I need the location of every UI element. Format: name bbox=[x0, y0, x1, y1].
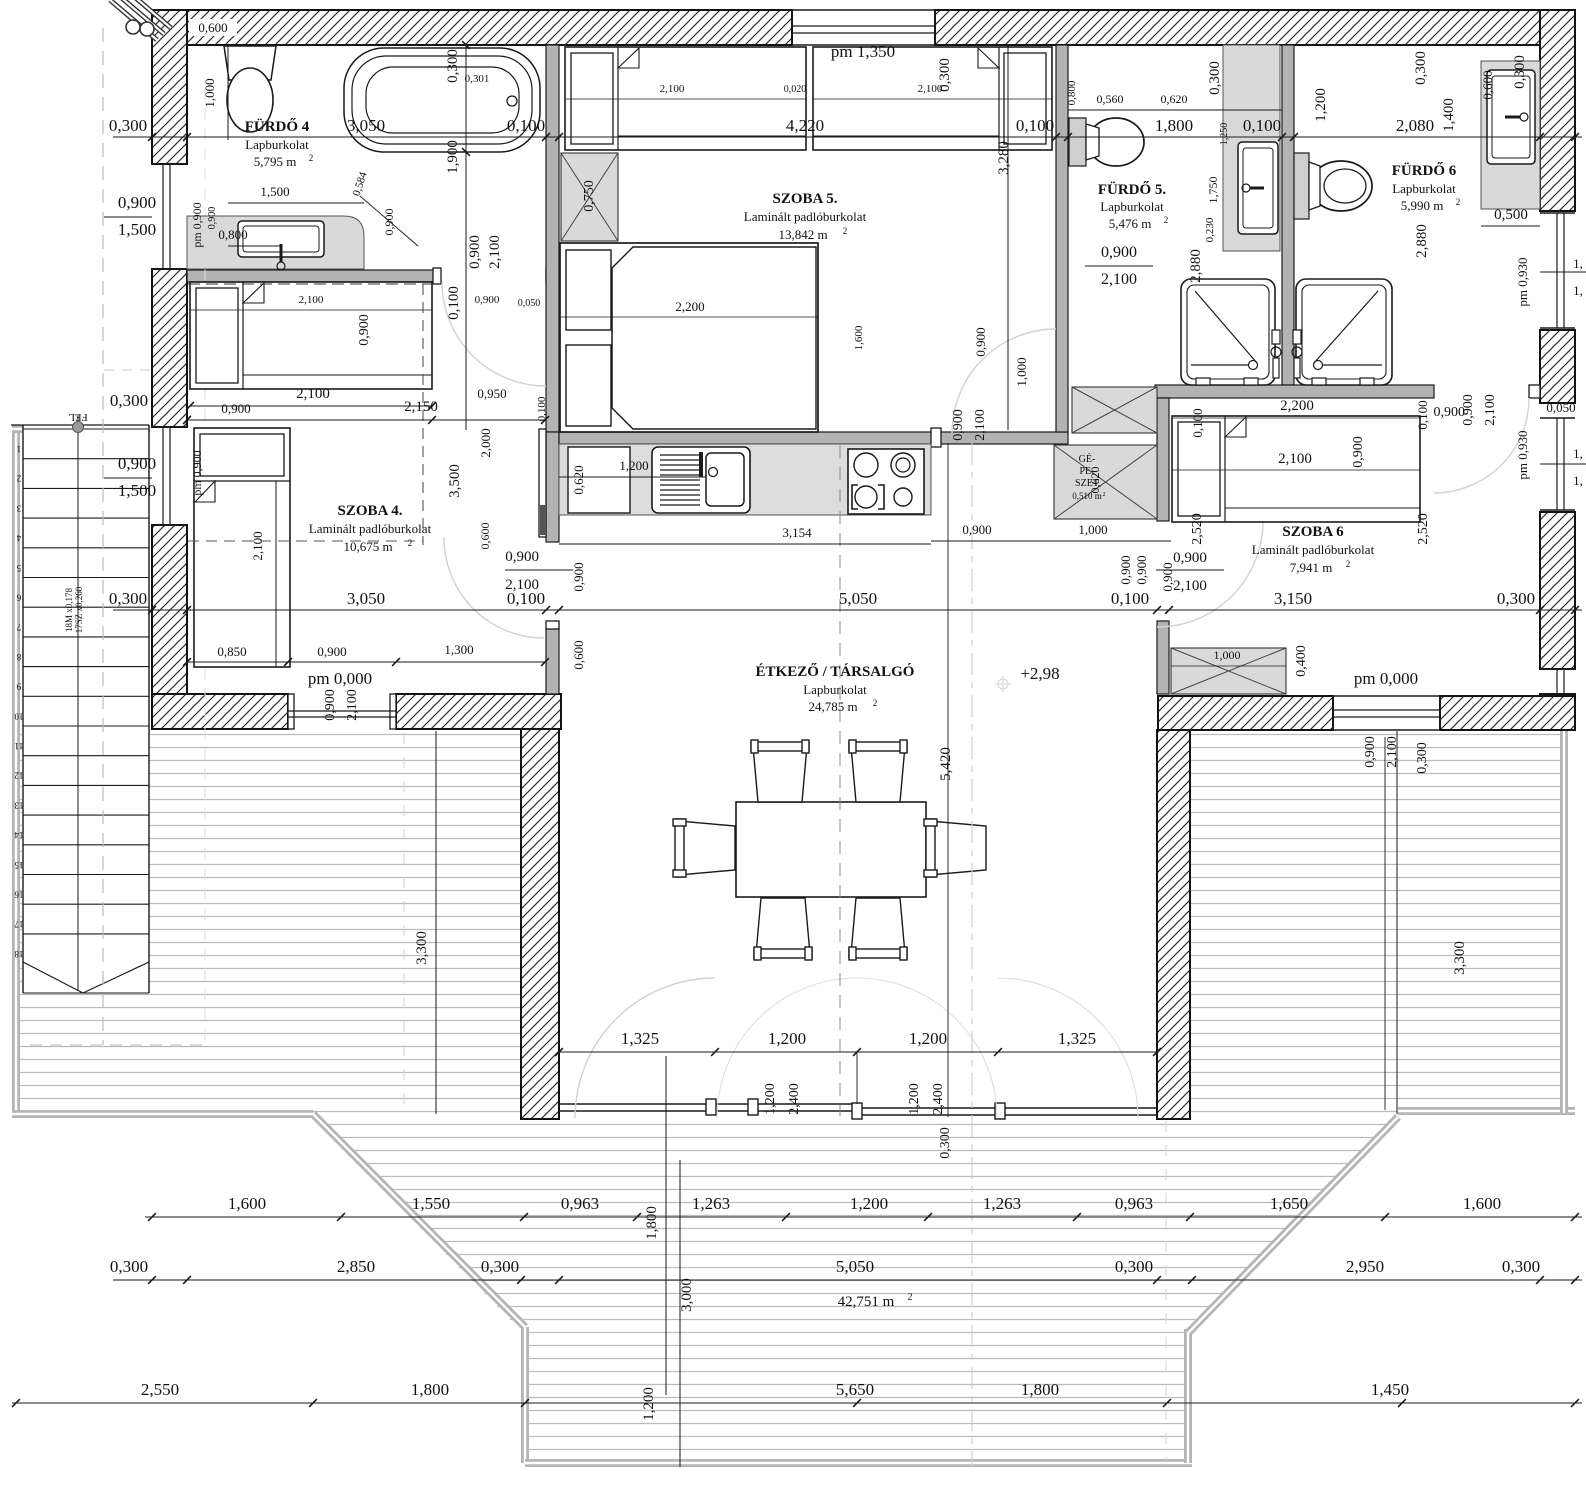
svg-text:0,100: 0,100 bbox=[507, 116, 545, 135]
svg-text:0,050: 0,050 bbox=[518, 298, 541, 309]
svg-text:1,600: 1,600 bbox=[1463, 1194, 1501, 1213]
svg-text:0,100: 0,100 bbox=[446, 286, 462, 320]
svg-text:0,900: 0,900 bbox=[357, 314, 372, 346]
svg-text:0,600: 0,600 bbox=[198, 20, 227, 35]
svg-text:2,000: 2,000 bbox=[478, 428, 493, 457]
svg-text:1,: 1, bbox=[1573, 473, 1583, 488]
svg-text:1,200: 1,200 bbox=[641, 1387, 657, 1421]
svg-text:1,200: 1,200 bbox=[763, 1083, 778, 1115]
svg-text:11: 11 bbox=[15, 741, 24, 751]
svg-text:14: 14 bbox=[14, 830, 24, 840]
svg-text:0,560: 0,560 bbox=[1097, 92, 1124, 106]
svg-text:0,900: 0,900 bbox=[475, 294, 500, 306]
svg-text:0,600: 0,600 bbox=[571, 640, 586, 669]
svg-text:0,900: 0,900 bbox=[317, 644, 346, 659]
svg-text:0,750: 0,750 bbox=[582, 180, 597, 212]
svg-text:5,420: 5,420 bbox=[938, 747, 954, 781]
svg-text:0,100: 0,100 bbox=[1016, 116, 1054, 135]
svg-text:0,900: 0,900 bbox=[207, 207, 218, 230]
svg-text:5,990 m: 5,990 m bbox=[1401, 198, 1444, 213]
svg-text:1,650: 1,650 bbox=[1270, 1194, 1308, 1213]
svg-text:SZOBA 6: SZOBA 6 bbox=[1282, 524, 1344, 540]
svg-text:2,100: 2,100 bbox=[1278, 451, 1312, 467]
svg-text:1,000: 1,000 bbox=[1078, 522, 1107, 537]
svg-text:2,880: 2,880 bbox=[1414, 224, 1430, 258]
svg-text:42,751 m: 42,751 m bbox=[838, 1294, 895, 1310]
svg-text:1,325: 1,325 bbox=[1058, 1029, 1096, 1048]
svg-text:2,080: 2,080 bbox=[1396, 116, 1434, 135]
svg-text:1: 1 bbox=[17, 444, 22, 454]
svg-text:3,280: 3,280 bbox=[996, 141, 1012, 175]
svg-text:0,900: 0,900 bbox=[118, 454, 156, 473]
svg-text:0,620: 0,620 bbox=[1161, 92, 1188, 106]
svg-text:0,900: 0,900 bbox=[1434, 405, 1466, 420]
svg-text:1,200: 1,200 bbox=[619, 458, 648, 473]
svg-text:FÜRDŐ 6: FÜRDŐ 6 bbox=[1392, 162, 1457, 179]
svg-text:2,520: 2,520 bbox=[1190, 513, 1205, 545]
svg-text:FÜRDŐ 4: FÜRDŐ 4 bbox=[245, 118, 310, 135]
svg-text:0,100: 0,100 bbox=[1415, 400, 1430, 429]
svg-text:1,263: 1,263 bbox=[983, 1194, 1021, 1213]
svg-text:+2,98: +2,98 bbox=[1020, 664, 1059, 683]
svg-text:0,900: 0,900 bbox=[571, 562, 586, 591]
svg-text:0,500: 0,500 bbox=[1494, 207, 1528, 223]
svg-text:Lapburkolat: Lapburkolat bbox=[245, 137, 309, 152]
svg-text:0,600: 0,600 bbox=[478, 523, 492, 550]
svg-text:2: 2 bbox=[1103, 492, 1106, 498]
svg-text:1,: 1, bbox=[1573, 283, 1583, 298]
svg-text:pm 0,000: pm 0,000 bbox=[1354, 669, 1418, 688]
svg-text:0,900: 0,900 bbox=[505, 549, 539, 565]
svg-text:2,880: 2,880 bbox=[1188, 249, 1204, 283]
svg-text:2,550: 2,550 bbox=[141, 1380, 179, 1399]
svg-text:0,100: 0,100 bbox=[1111, 589, 1149, 608]
svg-text:2: 2 bbox=[309, 153, 314, 163]
svg-text:1,800: 1,800 bbox=[411, 1380, 449, 1399]
svg-text:pm 0,000: pm 0,000 bbox=[308, 669, 372, 688]
svg-text:0,900: 0,900 bbox=[951, 409, 966, 441]
svg-text:2: 2 bbox=[17, 474, 22, 484]
svg-text:Laminált padlóburkolat: Laminált padlóburkolat bbox=[309, 521, 432, 536]
svg-text:2: 2 bbox=[1164, 215, 1169, 225]
svg-text:FEL: FEL bbox=[68, 411, 88, 423]
svg-text:Lapburkolat: Lapburkolat bbox=[1392, 181, 1456, 196]
svg-text:0,300: 0,300 bbox=[1207, 61, 1223, 95]
svg-text:13: 13 bbox=[14, 800, 24, 810]
svg-text:0,900: 0,900 bbox=[323, 689, 338, 721]
svg-text:2,100: 2,100 bbox=[660, 83, 685, 95]
svg-text:0,900: 0,900 bbox=[382, 209, 396, 236]
svg-text:17: 17 bbox=[14, 919, 24, 929]
svg-text:2,200: 2,200 bbox=[675, 299, 704, 314]
svg-text:pm 0,930: pm 0,930 bbox=[1515, 257, 1530, 306]
svg-text:0,963: 0,963 bbox=[1115, 1194, 1153, 1213]
svg-text:GÉ-: GÉ- bbox=[1079, 453, 1096, 465]
svg-text:2,100: 2,100 bbox=[973, 409, 988, 441]
svg-text:0,300: 0,300 bbox=[445, 49, 461, 83]
svg-text:2,100: 2,100 bbox=[1173, 578, 1207, 594]
svg-text:10,675 m: 10,675 m bbox=[343, 539, 392, 554]
svg-text:3,050: 3,050 bbox=[347, 589, 385, 608]
svg-text:0,900: 0,900 bbox=[118, 193, 156, 212]
svg-text:17SZ x0,260: 17SZ x0,260 bbox=[74, 586, 84, 633]
svg-text:0,900: 0,900 bbox=[1118, 555, 1133, 584]
svg-text:1,800: 1,800 bbox=[1155, 116, 1193, 135]
svg-text:1,: 1, bbox=[1573, 446, 1583, 461]
svg-text:0,963: 0,963 bbox=[561, 1194, 599, 1213]
svg-text:3,500: 3,500 bbox=[447, 464, 463, 498]
svg-text:1,263: 1,263 bbox=[692, 1194, 730, 1213]
svg-text:Lapburkolat: Lapburkolat bbox=[803, 682, 867, 697]
svg-text:1,000: 1,000 bbox=[1014, 357, 1029, 386]
svg-text:0,300: 0,300 bbox=[109, 116, 147, 135]
svg-text:7: 7 bbox=[16, 622, 21, 632]
svg-text:2,100: 2,100 bbox=[1385, 736, 1400, 768]
svg-text:6: 6 bbox=[16, 593, 21, 603]
svg-text:2,850: 2,850 bbox=[337, 1257, 375, 1276]
svg-text:2,100: 2,100 bbox=[345, 689, 360, 721]
svg-text:0,300: 0,300 bbox=[110, 391, 148, 410]
svg-text:2: 2 bbox=[908, 1292, 913, 1303]
svg-text:24,785 m: 24,785 m bbox=[808, 699, 857, 714]
svg-text:2,520: 2,520 bbox=[1416, 513, 1431, 545]
svg-text:Laminált padlóburkolat: Laminált padlóburkolat bbox=[1252, 542, 1375, 557]
svg-text:ÉTKEZŐ / TÁRSALGÓ: ÉTKEZŐ / TÁRSALGÓ bbox=[756, 663, 915, 680]
svg-text:5,050: 5,050 bbox=[839, 589, 877, 608]
svg-text:0,300: 0,300 bbox=[109, 589, 147, 608]
svg-text:10: 10 bbox=[14, 711, 24, 721]
svg-text:1,600: 1,600 bbox=[228, 1194, 266, 1213]
svg-text:pm 0,930: pm 0,930 bbox=[1515, 430, 1530, 479]
svg-text:0,300: 0,300 bbox=[1115, 1257, 1153, 1276]
svg-text:13,842 m: 13,842 m bbox=[778, 227, 827, 242]
svg-text:16: 16 bbox=[14, 890, 24, 900]
svg-text:3,050: 3,050 bbox=[347, 116, 385, 135]
svg-text:1,800: 1,800 bbox=[1021, 1380, 1059, 1399]
svg-text:1,500: 1,500 bbox=[118, 481, 156, 500]
svg-text:0,300: 0,300 bbox=[481, 1257, 519, 1276]
svg-text:0,850: 0,850 bbox=[217, 644, 246, 659]
svg-text:0,050: 0,050 bbox=[1546, 400, 1575, 415]
svg-text:1,750: 1,750 bbox=[1206, 177, 1220, 204]
svg-text:1,400: 1,400 bbox=[1441, 98, 1457, 132]
svg-text:0,950: 0,950 bbox=[477, 386, 506, 401]
svg-text:2: 2 bbox=[843, 226, 848, 236]
svg-text:3,300: 3,300 bbox=[414, 931, 430, 965]
svg-text:2,100: 2,100 bbox=[1483, 394, 1498, 426]
svg-text:2,400: 2,400 bbox=[787, 1083, 802, 1115]
svg-text:0,020: 0,020 bbox=[784, 84, 807, 95]
svg-text:0,900: 0,900 bbox=[467, 235, 483, 269]
svg-text:3,000: 3,000 bbox=[679, 1278, 695, 1312]
svg-text:0,300: 0,300 bbox=[1413, 51, 1429, 85]
svg-text:pm 0,900: pm 0,900 bbox=[190, 202, 204, 247]
svg-text:0,900: 0,900 bbox=[221, 401, 250, 416]
svg-text:1,200: 1,200 bbox=[907, 1083, 922, 1115]
svg-text:1,250: 1,250 bbox=[1219, 123, 1230, 146]
svg-text:0,300: 0,300 bbox=[1497, 589, 1535, 608]
svg-text:18M x0,178: 18M x0,178 bbox=[64, 588, 74, 633]
svg-text:0,900: 0,900 bbox=[1173, 550, 1207, 566]
svg-text:8: 8 bbox=[16, 652, 21, 662]
svg-text:1,300: 1,300 bbox=[444, 642, 473, 657]
svg-text:2,100: 2,100 bbox=[299, 294, 324, 306]
svg-text:2: 2 bbox=[873, 698, 878, 708]
svg-text:0,301: 0,301 bbox=[465, 73, 490, 85]
svg-text:3,300: 3,300 bbox=[1452, 941, 1468, 975]
svg-text:FÜRDŐ 5.: FÜRDŐ 5. bbox=[1098, 181, 1167, 198]
svg-text:1,550: 1,550 bbox=[412, 1194, 450, 1213]
svg-text:3,150: 3,150 bbox=[1274, 589, 1312, 608]
svg-text:12: 12 bbox=[15, 771, 24, 781]
svg-text:0,100: 0,100 bbox=[1190, 408, 1205, 437]
svg-text:0,300: 0,300 bbox=[937, 58, 953, 92]
svg-text:0,230: 0,230 bbox=[1204, 217, 1216, 242]
svg-text:4: 4 bbox=[16, 533, 21, 543]
svg-text:0,900: 0,900 bbox=[1101, 244, 1137, 261]
svg-text:0,300: 0,300 bbox=[1512, 55, 1528, 89]
svg-text:2,100: 2,100 bbox=[1101, 271, 1137, 288]
svg-text:1,500: 1,500 bbox=[118, 220, 156, 239]
svg-text:0,620: 0,620 bbox=[1088, 467, 1102, 494]
svg-text:pm 1,350: pm 1,350 bbox=[831, 42, 895, 61]
svg-text:0,900: 0,900 bbox=[973, 327, 988, 356]
svg-text:2,100: 2,100 bbox=[250, 531, 265, 560]
svg-text:1,000: 1,000 bbox=[1214, 648, 1241, 662]
svg-text:1,200: 1,200 bbox=[909, 1029, 947, 1048]
svg-text:5,050: 5,050 bbox=[836, 1257, 874, 1276]
svg-text:Laminált padlóburkolat: Laminált padlóburkolat bbox=[744, 209, 867, 224]
svg-text:2,950: 2,950 bbox=[1346, 1257, 1384, 1276]
svg-text:0,900: 0,900 bbox=[1134, 555, 1149, 584]
svg-text:SZOBA 5.: SZOBA 5. bbox=[772, 191, 837, 207]
svg-text:0,300: 0,300 bbox=[1415, 742, 1430, 774]
svg-text:2: 2 bbox=[1456, 197, 1461, 207]
svg-text:1,325: 1,325 bbox=[621, 1029, 659, 1048]
svg-text:2,400: 2,400 bbox=[931, 1083, 946, 1115]
svg-text:15: 15 bbox=[14, 860, 24, 870]
svg-text:0,300: 0,300 bbox=[938, 1127, 953, 1159]
svg-text:0,620: 0,620 bbox=[571, 465, 586, 494]
svg-text:0,300: 0,300 bbox=[1502, 1257, 1540, 1276]
svg-text:1,: 1, bbox=[1573, 256, 1583, 271]
svg-text:0,100: 0,100 bbox=[536, 396, 548, 421]
svg-text:5,795 m: 5,795 m bbox=[254, 154, 297, 169]
svg-text:0,600: 0,600 bbox=[1480, 70, 1495, 99]
svg-text:5,476 m: 5,476 m bbox=[1109, 216, 1152, 231]
svg-text:18: 18 bbox=[14, 949, 24, 959]
svg-text:2,100: 2,100 bbox=[505, 577, 539, 593]
svg-text:Lapburkolat: Lapburkolat bbox=[1100, 199, 1164, 214]
svg-text:0,900: 0,900 bbox=[1351, 436, 1366, 468]
svg-text:5,650: 5,650 bbox=[836, 1380, 874, 1399]
svg-text:9: 9 bbox=[16, 682, 21, 692]
svg-text:2,100: 2,100 bbox=[487, 235, 503, 269]
svg-text:1,800: 1,800 bbox=[644, 1206, 660, 1240]
svg-text:1,000: 1,000 bbox=[202, 78, 217, 107]
svg-text:0,900: 0,900 bbox=[1160, 562, 1175, 591]
svg-text:1,450: 1,450 bbox=[1371, 1380, 1409, 1399]
svg-text:0,900: 0,900 bbox=[1363, 736, 1378, 768]
svg-text:SZOBA 4.: SZOBA 4. bbox=[337, 503, 402, 519]
svg-text:3: 3 bbox=[16, 503, 21, 513]
svg-text:1,200: 1,200 bbox=[768, 1029, 806, 1048]
svg-text:2,150: 2,150 bbox=[404, 399, 438, 415]
svg-text:3,154: 3,154 bbox=[782, 525, 812, 540]
svg-text:0,800: 0,800 bbox=[218, 227, 247, 242]
svg-text:2: 2 bbox=[408, 538, 413, 548]
svg-text:0,900: 0,900 bbox=[962, 522, 991, 537]
svg-text:2,200: 2,200 bbox=[1280, 398, 1314, 414]
svg-text:2: 2 bbox=[1346, 559, 1351, 569]
svg-text:2,100: 2,100 bbox=[296, 386, 330, 402]
svg-text:7,941 m: 7,941 m bbox=[1290, 560, 1333, 575]
svg-text:1,200: 1,200 bbox=[1313, 88, 1329, 122]
svg-text:0,400: 0,400 bbox=[1294, 645, 1309, 677]
svg-text:0,100: 0,100 bbox=[1243, 116, 1281, 135]
svg-text:5: 5 bbox=[16, 563, 21, 573]
svg-text:1,500: 1,500 bbox=[260, 184, 289, 199]
svg-text:0,300: 0,300 bbox=[110, 1257, 148, 1276]
svg-text:1,600: 1,600 bbox=[853, 325, 865, 350]
svg-text:4,220: 4,220 bbox=[786, 116, 824, 135]
svg-text:0,800: 0,800 bbox=[1066, 80, 1078, 105]
svg-text:pm 0,900: pm 0,900 bbox=[190, 450, 204, 495]
svg-text:1,200: 1,200 bbox=[850, 1194, 888, 1213]
svg-text:1,900: 1,900 bbox=[445, 140, 461, 174]
